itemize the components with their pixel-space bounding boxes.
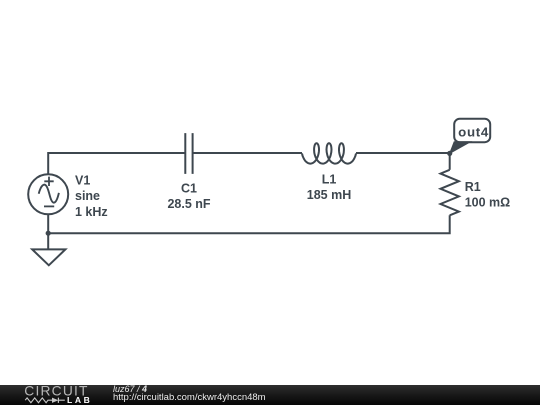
out4 wedge pointer	[450, 142, 471, 154]
svg-text:100 mΩ: 100 mΩ	[465, 196, 510, 210]
inductor L1	[302, 143, 356, 163]
capacitor C1	[185, 133, 192, 174]
svg-text:out4: out4	[458, 124, 489, 139]
wire top: V1 to C1	[48, 153, 185, 174]
footer text	[113, 384, 147, 394]
svg-text:28.5 nF: 28.5 nF	[167, 197, 210, 211]
ground	[32, 249, 65, 265]
svg-text:sine: sine	[75, 189, 100, 203]
voltage source V1	[28, 174, 68, 214]
svg-text:1 kHz: 1 kHz	[75, 205, 108, 219]
junction dot bottom-left	[46, 231, 51, 236]
svg-text:C1: C1	[181, 182, 197, 196]
wire bottom: junction to R1 bottom	[48, 215, 450, 233]
resistor R1	[441, 170, 459, 216]
wire: C1 to L1	[193, 152, 302, 154]
junction dot at out4 node	[447, 151, 452, 156]
CircuitLab logo	[0, 385, 110, 405]
wire: V1 bottom to ground junction	[47, 214, 49, 249]
footer bar	[0, 385, 540, 405]
wire: L1 to node out4	[356, 152, 450, 154]
svg-text:L1: L1	[322, 173, 337, 187]
out4 flag box	[454, 119, 490, 142]
svg-text:LAB: LAB	[67, 395, 92, 405]
svg-text:185 mH: 185 mH	[307, 188, 351, 202]
wire: node to R1 top	[449, 153, 451, 170]
svg-text:V1: V1	[75, 174, 90, 188]
svg-text:R1: R1	[465, 180, 481, 194]
